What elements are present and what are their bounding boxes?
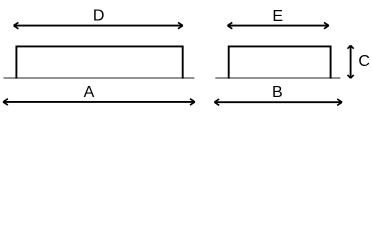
svg-text:A: A bbox=[84, 84, 95, 101]
svg-text:C: C bbox=[358, 53, 370, 70]
svg-text:E: E bbox=[272, 8, 283, 25]
svg-text:D: D bbox=[93, 8, 105, 25]
svg-text:B: B bbox=[272, 84, 283, 101]
